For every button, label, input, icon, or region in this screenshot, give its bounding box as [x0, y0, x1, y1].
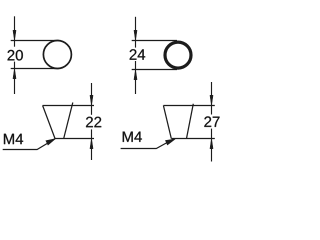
wire dim extension lower fig4: [211, 129, 213, 162]
arrowhead down at 22-dim top: [90, 95, 93, 105]
wire dim extension lower fig2: [135, 61, 137, 94]
wire bottom tangent line fig2: [132, 69, 177, 71]
wire top tangent line fig2: [132, 40, 177, 42]
label M4 left: [4, 134, 23, 144]
arrowhead down at 27-dim top: [210, 95, 213, 105]
wire right slant fig4: [187, 104, 194, 139]
label M4 right: [123, 132, 142, 142]
arrowhead down at 20-dim top: [13, 30, 16, 40]
wire top tangent line fig1: [11, 40, 59, 42]
arrowhead up at 22-dim bottom: [90, 139, 93, 149]
circle ring fig2: [165, 42, 191, 68]
wire dim extension upper fig1: [14, 16, 16, 46]
arrowhead up at 27-dim bottom: [210, 139, 213, 149]
wire left slant fig3: [43, 106, 55, 139]
arrowhead M4 leader fig3: [46, 139, 56, 145]
arrowhead M4 leader fig4: [166, 139, 176, 145]
wire top edge line fig3: [43, 105, 94, 107]
arrowhead up at 20-dim bottom: [13, 69, 16, 79]
wire bottom edge line fig4: [171, 138, 215, 140]
wire dim extension lower fig3: [91, 129, 93, 160]
wire M4 leader fig4: [121, 139, 174, 149]
wire M4 leader fig3: [3, 139, 55, 150]
wire dim extension upper fig3: [91, 83, 93, 115]
wire dim extension lower fig1: [14, 62, 16, 94]
label 24: [130, 49, 146, 59]
wire right slant fig3: [64, 103, 73, 139]
wire left slant fig4: [163, 106, 171, 139]
wire dim extension upper fig2: [135, 17, 137, 48]
circle ball fig1: [43, 41, 71, 69]
wire bottom tangent line fig1: [11, 68, 59, 70]
wire dim extension upper fig4: [211, 82, 213, 115]
arrowhead up at 24-dim bottom: [134, 70, 137, 80]
label 27: [204, 116, 219, 126]
wire bottom edge line fig3: [55, 138, 94, 140]
label 20: [8, 50, 23, 61]
arrowhead down at 24-dim top: [134, 30, 137, 40]
label 22: [86, 117, 101, 127]
wire top edge line fig4: [163, 105, 214, 107]
